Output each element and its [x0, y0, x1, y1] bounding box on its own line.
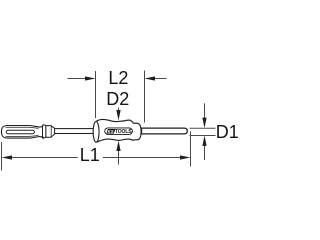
svg-text:L1: L1	[80, 145, 100, 165]
svg-text:TOOLS: TOOLS	[115, 129, 132, 135]
svg-text:KS: KS	[108, 129, 114, 134]
svg-text:L2: L2	[108, 68, 128, 88]
svg-text:D1: D1	[216, 122, 239, 142]
svg-text:D2: D2	[106, 89, 129, 109]
